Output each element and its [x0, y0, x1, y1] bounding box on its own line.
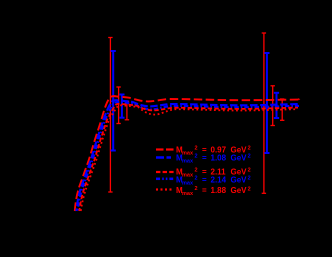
curve c4 blue dash-dot — [78, 102, 299, 211]
legend sample blue long-dash — [156, 156, 171, 159]
arrow tip at end of c1 — [298, 98, 300, 100]
error bar red small left — [125, 101, 129, 119]
curve c3 red medium-dash — [79, 104, 298, 211]
error bar red tall left — [108, 38, 112, 193]
error bar blue medium left — [119, 95, 124, 118]
legend sample red long-dash — [156, 148, 174, 150]
legend sample red fine-dot — [156, 188, 172, 190]
error bar blue tall left — [111, 51, 116, 151]
error bar blue tall right — [264, 53, 269, 153]
error bar red medium left — [116, 87, 120, 124]
legend sample red medium-dash — [156, 171, 174, 173]
curve c1 red long-dash — [75, 96, 299, 211]
curve c2 blue long-dash — [76, 100, 299, 211]
error bar red tall right — [262, 33, 266, 193]
error bar red medium right — [271, 86, 275, 126]
error bar red small right — [280, 99, 284, 120]
error bar blue medium right — [274, 93, 279, 118]
legend sample blue dash-dot — [156, 178, 173, 181]
curve c5 red fine-dot — [81, 105, 297, 211]
